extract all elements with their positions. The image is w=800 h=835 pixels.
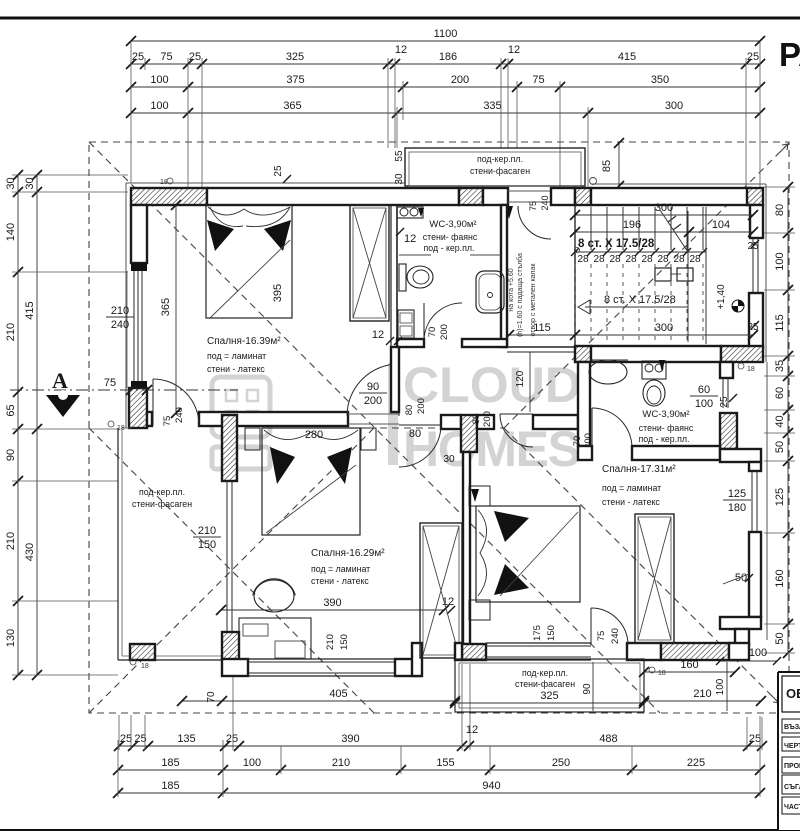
- svg-text:28: 28: [609, 254, 621, 265]
- svg-text:150: 150: [198, 539, 216, 551]
- entrance door arc: [518, 206, 551, 239]
- stairs walk line + arrow: [585, 306, 688, 308]
- svg-text:под = ламинат: под = ламинат: [311, 564, 370, 574]
- top dim row 3: [131, 86, 760, 88]
- svg-text:90: 90: [367, 381, 379, 393]
- svg-text:28: 28: [625, 254, 637, 265]
- svg-text:РАЗ: РАЗ: [779, 36, 800, 73]
- svg-text:25: 25: [132, 51, 144, 63]
- svg-text:под = ламинат: под = ламинат: [602, 483, 661, 493]
- entrance opening + arrow: [507, 188, 509, 205]
- bedroom1 south wall w/ door opening: [147, 412, 152, 426]
- svg-text:ОБЕКТ: ОБЕКТ: [786, 686, 800, 701]
- svg-text:28: 28: [657, 254, 669, 265]
- bedroom3 bed: [476, 506, 580, 602]
- roof corner arrow NE: [780, 144, 788, 152]
- midroom wardrobe W2: [420, 523, 462, 658]
- svg-text:80: 80: [409, 428, 421, 440]
- stairs dim 196/104: [575, 231, 753, 233]
- svg-text:под-кер.пл.: под-кер.пл.: [477, 154, 523, 164]
- svg-text:75: 75: [528, 201, 538, 211]
- svg-text:185: 185: [161, 780, 179, 792]
- svg-text:Спалня-16.29м²: Спалня-16.29м²: [311, 548, 385, 559]
- svg-text:стени- фаянс: стени- фаянс: [639, 423, 694, 433]
- WC1 bathtub: [476, 271, 504, 313]
- roof corner arrow SE: [771, 695, 779, 703]
- roof diagonal D2: [504, 143, 789, 428]
- svg-text:стени- фаянс: стени- фаянс: [423, 232, 478, 242]
- svg-text:325: 325: [286, 51, 304, 63]
- midroom west wall hatched top: [222, 415, 237, 481]
- svg-text:100: 100: [150, 100, 168, 112]
- svg-text:под = ламинат: под = ламинат: [207, 351, 266, 361]
- svg-text:210: 210: [693, 688, 711, 700]
- title block: [779, 673, 800, 830]
- stair bottom wall: [591, 346, 721, 362]
- svg-text:240: 240: [174, 407, 185, 423]
- left wall window 210/240: [133, 271, 135, 388]
- WC2 toilet: [643, 380, 665, 406]
- svg-text:Спалня-16.39м²: Спалня-16.39м²: [207, 336, 281, 347]
- desk: [239, 618, 311, 659]
- roof diagonal D3: [89, 428, 374, 713]
- svg-text:75: 75: [162, 416, 173, 427]
- svg-text:120: 120: [515, 370, 526, 387]
- top wall hatched pier NE corner: [747, 188, 763, 205]
- svg-text:50: 50: [774, 441, 786, 453]
- svg-text:стени - латекс: стени - латекс: [602, 497, 660, 507]
- svg-text:1100: 1100: [434, 28, 458, 40]
- page bottom border: [0, 829, 800, 831]
- svg-text:75: 75: [596, 631, 607, 642]
- wall between hall and WC1 below: [391, 347, 399, 412]
- svg-text:210: 210: [332, 757, 350, 769]
- svg-text:125: 125: [774, 488, 786, 506]
- bottom terrace dims: [455, 702, 644, 704]
- roof diagonal D4: [504, 428, 789, 713]
- svg-text:80: 80: [404, 405, 415, 416]
- svg-text:30: 30: [24, 177, 36, 189]
- roof diagonal D5: [89, 428, 374, 713]
- midroom west wall window: [226, 481, 228, 632]
- svg-text:28: 28: [641, 254, 653, 265]
- svg-text:стени-фасаген: стени-фасаген: [515, 679, 575, 689]
- circle 18 bottom: [649, 667, 655, 673]
- stair right wall lower: [749, 293, 763, 348]
- svg-text:65: 65: [5, 404, 17, 416]
- svg-text:185: 185: [161, 757, 179, 769]
- svg-text:18: 18: [658, 670, 666, 677]
- terrace left outline: [117, 428, 119, 660]
- svg-text:(h)=1.60 с падаща стълба: (h)=1.60 с падаща стълба: [516, 253, 524, 337]
- step wall to bedroom3: [412, 643, 422, 676]
- top wall segment: [483, 188, 508, 205]
- svg-text:25: 25: [719, 396, 730, 408]
- stair bottom wall hatched E: [721, 346, 763, 362]
- corridor door 80 arc W: [399, 425, 441, 467]
- svg-text:ВЪЗЛ.: ВЪЗЛ.: [784, 724, 800, 731]
- midroom dim 390/12: [221, 609, 444, 611]
- svg-text:160: 160: [680, 659, 698, 671]
- section line A-A: [10, 389, 238, 391]
- svg-text:115: 115: [774, 314, 786, 332]
- svg-text:325: 325: [540, 690, 558, 702]
- svg-text:240: 240: [610, 628, 621, 644]
- midroom south wall: [222, 659, 248, 676]
- marker 18 SW: [108, 421, 114, 427]
- bedroom3 east wall lower: [749, 532, 761, 617]
- svg-text:200: 200: [416, 398, 427, 414]
- svg-text:80: 80: [774, 204, 786, 216]
- bedroom3 east window 125/180: [751, 471, 753, 532]
- top wall bedroom1 segment: [207, 188, 459, 205]
- svg-text:175: 175: [532, 625, 543, 641]
- svg-text:12: 12: [395, 44, 407, 56]
- svg-text:300: 300: [665, 100, 683, 112]
- bedroom3 bed bow: [494, 511, 529, 542]
- svg-text:75: 75: [160, 51, 172, 63]
- bedroom3 wardrobe: [635, 514, 674, 643]
- svg-text:28: 28: [673, 254, 685, 265]
- svg-text:ПРОЕК: ПРОЕК: [784, 763, 800, 770]
- bedroom3 north wall: [578, 446, 592, 460]
- bedroom3 east wall: [749, 462, 761, 471]
- WC2 left wall: [578, 362, 590, 446]
- eave line top-right: [591, 183, 766, 185]
- top wall: hatched pier left: [131, 188, 207, 205]
- WC1 bottom wall: [397, 339, 424, 347]
- stair hall left edge: [574, 205, 576, 346]
- circle 18 top-left: [167, 178, 173, 184]
- svg-text:8 ст. Х 17.5/28: 8 ст. Х 17.5/28: [578, 238, 655, 250]
- svg-text:75: 75: [104, 377, 116, 389]
- svg-text:430: 430: [24, 543, 36, 561]
- svg-text:365: 365: [283, 100, 301, 112]
- WC1 left wall: [390, 205, 392, 347]
- svg-text:200: 200: [451, 74, 469, 86]
- bottom dim row C: [118, 792, 760, 794]
- svg-text:140: 140: [5, 223, 17, 241]
- svg-text:18: 18: [160, 179, 168, 186]
- WC2 sink: [589, 360, 627, 384]
- svg-text:196: 196: [623, 219, 641, 231]
- balcony (top, над WC): [405, 148, 585, 186]
- midroom bed bow: [270, 447, 295, 484]
- svg-text:+1,40: +1,40: [716, 284, 727, 310]
- bedroom3 south window 155: [486, 645, 591, 647]
- page top border: [0, 17, 800, 20]
- svg-text:28: 28: [593, 254, 605, 265]
- left dim inner column: [36, 175, 38, 675]
- bedroom3 south wall: [627, 643, 661, 660]
- watermark separator bar: [388, 363, 398, 465]
- svg-text:стени - латекс: стени - латекс: [207, 364, 265, 374]
- svg-text:100: 100: [695, 398, 713, 410]
- svg-text:под - кер.пл.: под - кер.пл.: [424, 243, 475, 253]
- left dim outer column: [17, 175, 19, 675]
- svg-text:104: 104: [712, 219, 730, 231]
- svg-text:Спалня-17.31м²: Спалня-17.31м²: [602, 464, 676, 475]
- svg-text:70: 70: [427, 327, 438, 338]
- svg-text:186: 186: [439, 51, 457, 63]
- svg-text:180: 180: [728, 502, 746, 514]
- svg-text:25: 25: [226, 733, 238, 745]
- svg-text:12: 12: [442, 596, 454, 608]
- svg-text:8 ст. Х 17.5/28: 8 ст. Х 17.5/28: [604, 294, 676, 306]
- small marker 18: [130, 659, 136, 665]
- svg-text:125: 125: [728, 488, 746, 500]
- top wall stairs segment: [591, 188, 751, 205]
- left wall hatched pier SW: [129, 388, 147, 428]
- svg-text:25: 25: [273, 165, 284, 177]
- svg-text:405: 405: [329, 688, 347, 700]
- svg-text:160: 160: [774, 569, 786, 587]
- corridor south wall segment: [441, 415, 461, 429]
- stairs upper flight treads: [574, 207, 576, 250]
- svg-text:90: 90: [582, 683, 593, 695]
- svg-text:WC-3,90м²: WC-3,90м²: [429, 219, 476, 230]
- svg-text:25: 25: [747, 51, 759, 63]
- svg-text:60: 60: [698, 384, 710, 396]
- svg-text:30: 30: [394, 173, 405, 185]
- bottom terrace outline: [455, 659, 644, 712]
- corridor door 80 arc E: [500, 414, 533, 447]
- svg-text:55: 55: [394, 150, 405, 162]
- stairs dim 300 top: [575, 214, 753, 216]
- svg-text:90: 90: [5, 449, 17, 461]
- bottom dim row A: [119, 745, 762, 747]
- svg-text:18: 18: [141, 663, 149, 670]
- svg-text:ЧЕРТ.: ЧЕРТ.: [784, 743, 800, 750]
- corridor south wall line: [507, 346, 575, 348]
- svg-text:155: 155: [436, 757, 454, 769]
- svg-text:25: 25: [749, 733, 761, 745]
- svg-text:488: 488: [599, 733, 617, 745]
- bedroom3 door D: [592, 447, 632, 449]
- dim 120 rot: [529, 352, 531, 412]
- svg-text:CLOUD: CLOUD: [403, 357, 581, 413]
- svg-text:300: 300: [655, 322, 673, 334]
- svg-text:240: 240: [111, 319, 129, 331]
- left dim extension lines: [12, 174, 128, 176]
- svg-text:60: 60: [774, 387, 786, 399]
- svg-text:250: 250: [552, 757, 570, 769]
- bedroom3 door F arc: [590, 608, 592, 645]
- bedroom1 door 75/240: [152, 379, 154, 425]
- svg-text:130: 130: [5, 629, 17, 647]
- svg-text:WC-3,90м²: WC-3,90м²: [642, 409, 689, 420]
- right dim extension lines: [764, 186, 795, 188]
- left wall black jamb low: [131, 381, 147, 388]
- svg-text:стени - латекс: стени - латекс: [311, 576, 369, 586]
- bedroom1 wardrobe: [350, 205, 389, 321]
- svg-text:на кота +5.60: на кота +5.60: [508, 268, 515, 311]
- stairs landing edge: [705, 207, 707, 344]
- svg-text:25: 25: [120, 733, 132, 745]
- bedroom1 blanket bow: [207, 220, 234, 251]
- svg-text:335: 335: [483, 100, 501, 112]
- svg-text:под - кер.пл.: под - кер.пл.: [639, 434, 690, 444]
- eave line top-left: [126, 182, 405, 184]
- top wall hatched pier (над WC): [459, 188, 483, 205]
- wall bedrooms 2-3: [463, 452, 470, 644]
- svg-text:12: 12: [466, 724, 478, 736]
- svg-text:35: 35: [774, 360, 786, 372]
- svg-text:100: 100: [150, 74, 168, 86]
- svg-text:210: 210: [5, 532, 17, 550]
- midroom west wall hatched bottom: [222, 632, 239, 660]
- marker 18 balcony: [590, 178, 597, 185]
- svg-text:365: 365: [160, 298, 172, 316]
- svg-text:100: 100: [749, 647, 767, 659]
- svg-text:75: 75: [532, 74, 544, 86]
- svg-text:280: 280: [305, 429, 323, 441]
- top dim extension lines: [130, 41, 132, 183]
- svg-text:100: 100: [715, 678, 726, 695]
- WC2 right wall hatched pier: [720, 413, 737, 449]
- WC1 door arc 70/200: [424, 303, 462, 341]
- svg-text:200: 200: [364, 395, 382, 407]
- WC2 washer: [642, 361, 666, 379]
- svg-text:под-кер.пл.: под-кер.пл.: [522, 668, 568, 678]
- svg-text:210: 210: [111, 305, 129, 317]
- svg-text:100: 100: [243, 757, 261, 769]
- svg-text:A: A: [52, 368, 68, 393]
- midroom bed side tables: [245, 428, 260, 450]
- left wall upper: [131, 205, 147, 263]
- svg-text:390: 390: [341, 733, 359, 745]
- circle 18 right: [738, 363, 744, 369]
- hatched pier bottom: [462, 644, 486, 660]
- svg-text:415: 415: [618, 51, 636, 63]
- svg-text:стени-фасаген: стени-фасаген: [470, 166, 530, 176]
- svg-text:390: 390: [323, 597, 341, 609]
- stairs tread dim line with 28 labels: [575, 251, 706, 253]
- roof ridge: [356, 427, 504, 429]
- stair bottom wall hatched W: [575, 346, 591, 362]
- bottom dim row B: [118, 769, 760, 771]
- terrace hatched pier bottom: [130, 644, 155, 660]
- svg-text:200: 200: [439, 324, 450, 340]
- bottom dim extension lines: [117, 740, 119, 797]
- svg-text:25: 25: [189, 51, 201, 63]
- top dim row 1100: [131, 40, 760, 42]
- svg-text:395: 395: [272, 284, 284, 302]
- WC1 tile line: [399, 254, 431, 256]
- corridor south wall segment 2: [477, 415, 494, 429]
- svg-text:200: 200: [482, 411, 493, 427]
- svg-text:70: 70: [572, 436, 583, 447]
- svg-text:18: 18: [747, 366, 755, 373]
- stair right wall window: [752, 238, 754, 293]
- svg-text:150: 150: [546, 625, 557, 641]
- bedroom3 side tables: [469, 486, 490, 506]
- top dim row 4: [131, 112, 760, 114]
- bedroom1 bed: [206, 205, 292, 318]
- svg-text:210: 210: [198, 525, 216, 537]
- svg-text:210: 210: [325, 634, 336, 650]
- svg-text:стени-фасаген: стени-фасаген: [132, 499, 192, 509]
- stairs dim 115/300 bottom: [509, 334, 753, 336]
- svg-text:ЧАСТ: ЧАСТ: [784, 804, 800, 811]
- svg-text:135: 135: [177, 733, 195, 745]
- top dim row 2: [131, 63, 760, 65]
- svg-text:85: 85: [601, 160, 613, 172]
- WC1 toilet: [399, 264, 406, 291]
- svg-text:940: 940: [482, 780, 500, 792]
- top wall hatched pier (stairs): [575, 188, 591, 205]
- WC2 door 70/200: [591, 408, 593, 448]
- svg-text:415: 415: [24, 301, 36, 319]
- watermark logo: [212, 377, 270, 469]
- opening 90: [348, 413, 399, 415]
- WC2 right wall upper: [720, 362, 733, 378]
- svg-text:28: 28: [689, 254, 701, 265]
- WC1 right wall: [501, 205, 507, 347]
- bottom dims 70/405: [182, 700, 455, 702]
- roof diagonal D1: [89, 142, 660, 713]
- svg-text:80: 80: [471, 414, 482, 425]
- svg-text:под-кер.пл.: под-кер.пл.: [139, 487, 185, 497]
- corridor hatched pier: [461, 415, 477, 452]
- svg-text:210: 210: [5, 323, 17, 341]
- svg-text:50: 50: [774, 632, 786, 644]
- svg-text:28: 28: [577, 254, 589, 265]
- roof outline dashed: [89, 142, 789, 713]
- svg-text:225: 225: [687, 757, 705, 769]
- left wall black jamb: [131, 263, 147, 271]
- WC1 sink counter: [397, 207, 423, 218]
- svg-text:12: 12: [372, 329, 384, 341]
- svg-text:30: 30: [443, 454, 455, 465]
- bedroom3 SE step walls: [720, 617, 761, 629]
- svg-text:отвор с метален капак: отвор с метален капак: [530, 263, 537, 337]
- svg-text:350: 350: [651, 74, 669, 86]
- svg-text:150: 150: [339, 634, 350, 650]
- door 90 arc: [398, 364, 400, 416]
- svg-text:30: 30: [5, 177, 17, 189]
- right dim column: [787, 187, 789, 653]
- svg-text:240: 240: [540, 195, 550, 210]
- corridor wall segment 3: [533, 415, 578, 429]
- stairs lower flight dashed treads: [574, 264, 576, 342]
- dim 85 balcony: [618, 143, 620, 188]
- attic hatch symbol: [655, 268, 671, 281]
- bedroom1 dim 365: [175, 205, 177, 413]
- svg-text:100: 100: [774, 252, 786, 270]
- svg-text:40: 40: [774, 415, 786, 427]
- svg-text:375: 375: [286, 74, 304, 86]
- svg-text:12: 12: [508, 44, 520, 56]
- WC1 radiator: [398, 310, 414, 338]
- stair right wall upper: [750, 205, 763, 238]
- stairs break line: [660, 210, 688, 252]
- WC2 right wall window 60: [722, 378, 724, 408]
- midroom bed: [262, 428, 360, 535]
- svg-text:12: 12: [404, 233, 416, 245]
- svg-text:70: 70: [206, 691, 217, 703]
- svg-text:СЪГЛ.: СЪГЛ.: [784, 784, 800, 791]
- top wall segment right of entrance: [551, 188, 575, 205]
- east side thin outline: [766, 362, 768, 640]
- office chair: [254, 580, 294, 612]
- svg-text:300: 300: [655, 202, 673, 214]
